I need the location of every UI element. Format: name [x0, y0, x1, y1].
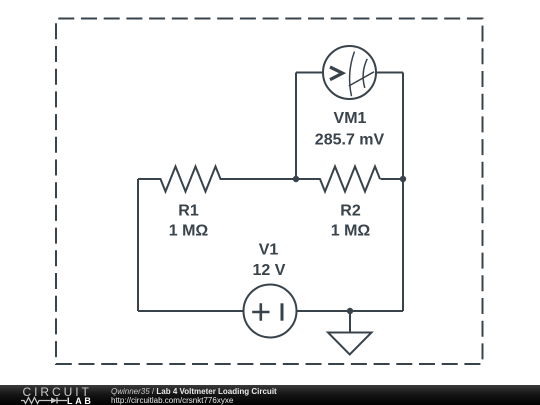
wire right rail	[402, 73, 404, 312]
svg-text:R2: R2	[340, 203, 361, 220]
svg-text:VM1: VM1	[334, 110, 367, 127]
wire node B vertical	[295, 73, 297, 180]
svg-text:V1: V1	[259, 242, 279, 259]
V1 minus bar	[281, 303, 284, 320]
resistor R2	[296, 167, 380, 192]
svg-text:1 MΩ: 1 MΩ	[331, 223, 371, 240]
wire R2 right stub	[381, 178, 404, 180]
svg-text:12 V: 12 V	[253, 262, 286, 279]
V1 plus sign	[252, 303, 269, 320]
svg-text:285.7 mV: 285.7 mV	[315, 132, 385, 149]
node junction R2-right rail	[400, 176, 406, 182]
footer bar	[0, 385, 540, 405]
wire voltmeter right stub	[377, 72, 404, 74]
wire left rail	[137, 179, 139, 311]
svg-text:R1: R1	[178, 203, 199, 220]
dashed selection border	[56, 19, 483, 365]
logo word LAB	[67, 396, 94, 405]
wire bottom right	[297, 310, 404, 312]
VM1 greater-than mark	[330, 67, 343, 80]
resistor R1	[138, 167, 296, 192]
voltage source V1 body	[244, 285, 297, 338]
VM1 meter arc 1	[350, 52, 355, 97]
ground stem	[349, 311, 351, 333]
wire voltmeter left stub	[296, 72, 323, 74]
footer title text	[111, 387, 277, 405]
logo word CIRCUIT	[23, 385, 92, 399]
VM1 meter arc 2	[363, 59, 367, 88]
node junction R1-R2	[293, 176, 299, 182]
wire bottom left	[138, 310, 244, 312]
ground symbol	[328, 333, 372, 355]
logo schematic squiggle	[20, 396, 68, 405]
VM1 needle	[349, 72, 374, 86]
svg-text:1 MΩ: 1 MΩ	[169, 223, 209, 240]
voltmeter VM1 body	[323, 46, 376, 99]
ground node dot	[347, 308, 353, 314]
